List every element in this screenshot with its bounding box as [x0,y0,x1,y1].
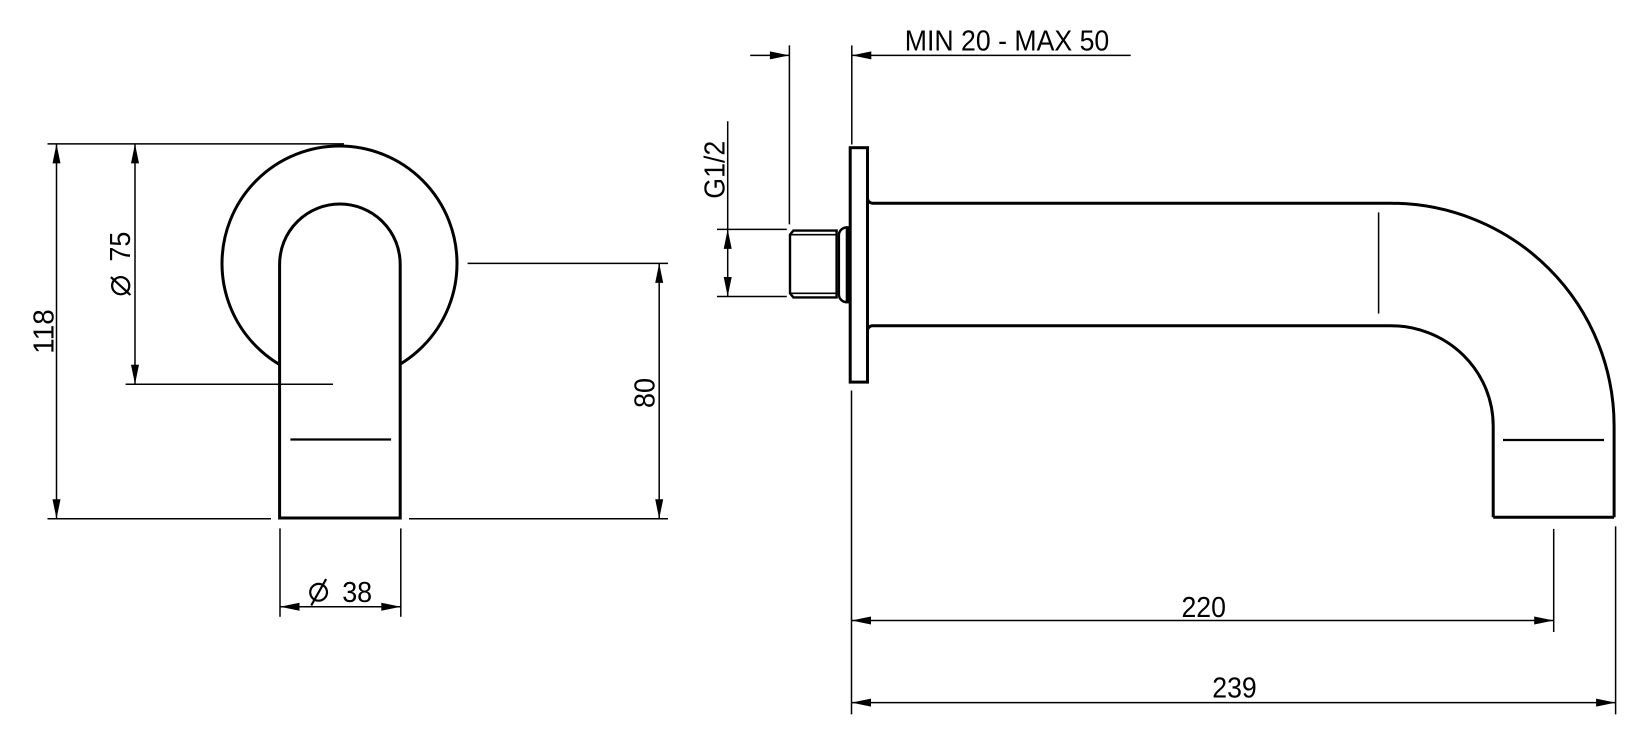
side view: outlet bottom edge [1493,516,1614,519]
dimension 239 right extension line [1615,526,1617,714]
side view: bend transition mark [1378,212,1380,313]
dimension d38 right extension line [400,528,402,616]
dimension MIN-MAX left extension line [788,45,790,224]
dimension 80 top extension line [468,262,668,264]
front view: aerator line [290,438,391,440]
front view: wall flange circle [222,146,457,381]
dimension MIN-MAX line left tail [750,54,789,56]
svg-text:118: 118 [28,309,60,354]
dimension 220 line [852,620,1554,622]
dimension d75 bottom extension line [126,383,333,385]
front view: spout tube body [280,204,401,518]
side view: nipple collar [839,228,847,303]
svg-text:220: 220 [1181,592,1226,624]
svg-text:80: 80 [630,378,662,408]
svg-text:MIN 20 - MAX 50: MIN 20 - MAX 50 [905,26,1110,58]
dimension G1/2 top extension line [717,228,787,230]
dimension G1/2 bottom extension line [717,296,787,298]
dimension 80 line [658,263,660,518]
dimension 220 right extension line [1553,529,1555,632]
dimension 220-239 left extension line [851,391,853,715]
svg-text:G1/2: G1/2 [699,141,731,199]
svg-text:75: 75 [105,232,137,262]
dimension MIN-MAX line right part [852,54,1131,56]
side view: aerator line [1503,439,1604,441]
side view: tube top edge with fillet and outer bend [868,198,1615,517]
dimension d75 diameter symbol [111,277,130,295]
extension line bottom left (front) [48,518,272,520]
dimension MIN-MAX right extension line [851,45,853,144]
dimension d38 line [280,606,401,608]
side view: seal disc (dark band) [846,226,852,303]
side view: tube bottom edge with fillet and inner bend [868,326,1494,518]
dimension 118 line [56,144,58,519]
dimension 239 line [852,702,1616,704]
svg-text:38: 38 [342,577,372,609]
dimension d38 diameter symbol [310,579,327,605]
svg-text:239: 239 [1212,673,1257,705]
side view: wall plate [850,148,867,382]
dimension d75 line [134,144,136,384]
dimension d38 left extension line [279,528,281,616]
extension line top (front) [48,143,345,145]
side view: thread root lines [790,234,837,236]
extension line bottom right (front) [409,518,668,520]
side view: threaded nipple outline [790,231,837,298]
dimension G1/2 line [727,121,729,296]
